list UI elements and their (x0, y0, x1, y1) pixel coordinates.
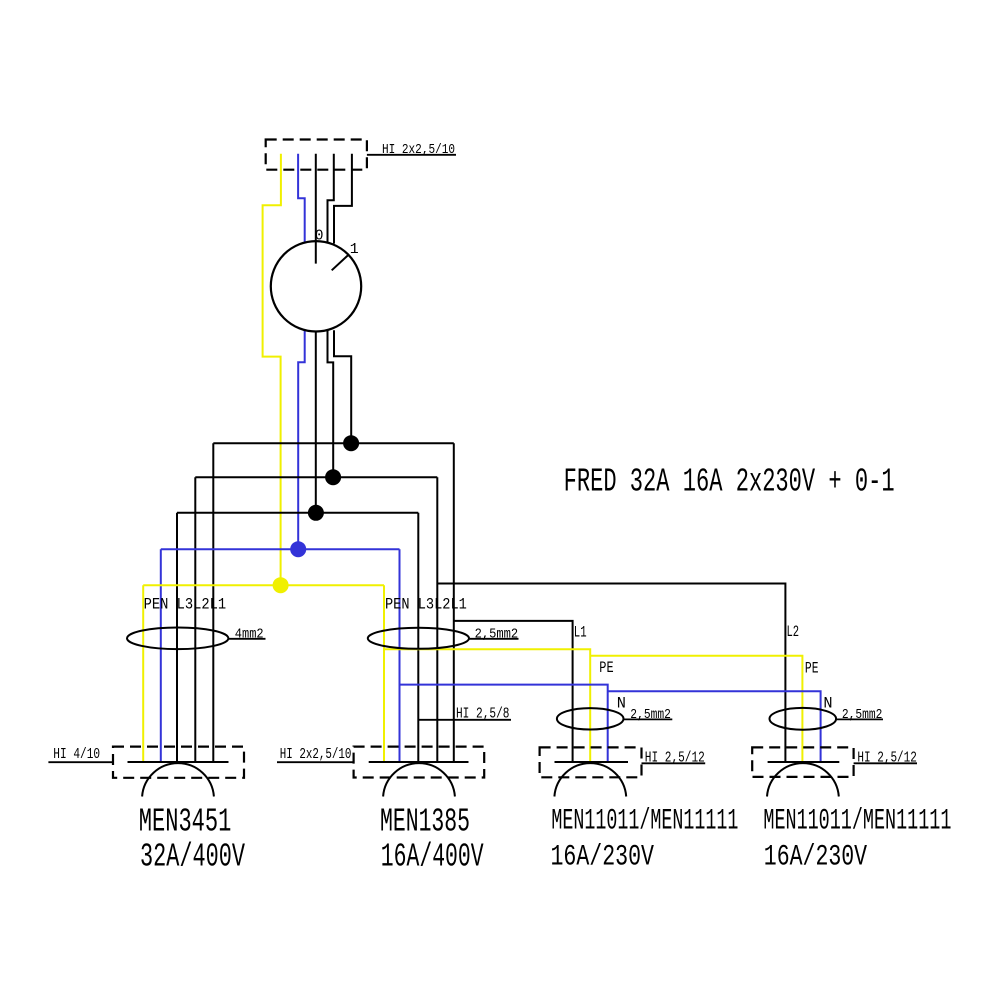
label HI 2x2,5/10 (feed) (367, 143, 456, 158)
outlet 1 box (dashed) (113, 747, 244, 778)
rotary switch 0-1 (271, 241, 361, 331)
svg-text:16A/230V: 16A/230V (551, 841, 655, 875)
svg-text:32A/400V: 32A/400V (140, 838, 245, 875)
wire PE yellow from feed box to PE node (263, 154, 281, 585)
wire N branch to outlet 3 (400, 685, 608, 762)
wire PE down to outlet 1 (142, 585, 144, 762)
label HI 4/10 (48, 746, 113, 763)
outlet 4 socket arc (767, 763, 839, 796)
outlet 2 terminal line (369, 761, 469, 763)
outlet 1 conduit ellipse (127, 628, 228, 650)
svg-text:MEN11011/MEN11111: MEN11011/MEN11111 (763, 805, 951, 839)
svg-text:2,5mm2: 2,5mm2 (842, 707, 883, 723)
outlet 3 box (dashed) (540, 747, 642, 777)
svg-text:PE: PE (599, 659, 613, 677)
outlet 2 conduit ellipse (368, 628, 469, 649)
wire PE branch to outlet 3 (384, 649, 590, 762)
bus N blue (161, 548, 400, 550)
wire L1 down to outlet 2 (453, 443, 455, 762)
svg-text:2,5mm2: 2,5mm2 (630, 707, 671, 723)
svg-text:0: 0 (315, 229, 324, 245)
node L2 (325, 469, 341, 485)
bus L2 (195, 476, 437, 478)
wire PE down to outlet 2 (383, 585, 385, 762)
outlet 4 conduit ellipse (770, 708, 837, 730)
wire L1 down to outlet 1 (212, 443, 214, 762)
outlet 3 conduit ellipse (557, 708, 624, 729)
label HI 2,5/12 (outlet 3) (642, 750, 706, 767)
outlet 4 terminal line (768, 761, 840, 763)
outlet 2 socket arc (383, 763, 455, 796)
wire L3 down to outlet 2 (417, 513, 419, 762)
wire PE branch to outlet 4 (590, 656, 802, 762)
bus PE yellow (143, 584, 384, 586)
bus L3 (177, 512, 418, 514)
outlet 1 terminal line (128, 761, 229, 763)
wire N down to outlet 2 (399, 549, 401, 762)
wire L2 from feed box to switch (328, 154, 334, 243)
label 4mm2 (229, 627, 266, 643)
wire L2 branch to outlet 4 (437, 584, 785, 763)
svg-text:1: 1 (350, 242, 359, 258)
wire N branch to outlet 4 (608, 691, 821, 762)
svg-text:HI 2x2,5/10: HI 2x2,5/10 (280, 746, 352, 763)
wire L3 from feed box through switch pointer 0 (315, 154, 317, 264)
node L1 (343, 435, 359, 451)
svg-text:4mm2: 4mm2 (235, 627, 264, 643)
svg-text:MEN3451: MEN3451 (139, 804, 232, 841)
svg-text:16A/230V: 16A/230V (764, 841, 867, 875)
svg-text:L1: L1 (574, 623, 587, 641)
wire L3 down to outlet 1 (176, 513, 178, 762)
wire L1 from feed box to switch (334, 154, 352, 244)
label HI 2,5/12 (outlet 4) (854, 750, 917, 767)
feed junction box (dashed) (266, 140, 367, 170)
bus L1 (213, 442, 453, 444)
node N (290, 541, 306, 557)
wire L3 from switch to L3 node (315, 331, 317, 512)
svg-text:16A/400V: 16A/400V (381, 838, 484, 875)
label 2,5mm2 (outlet 4) (836, 707, 883, 723)
wire L1 from switch to L1 node (334, 330, 351, 443)
node PE (273, 577, 289, 593)
wire L2 from switch to L2 node (328, 331, 334, 478)
svg-text:MEN11011/MEN11111: MEN11011/MEN11111 (551, 805, 738, 839)
svg-text:N: N (617, 695, 626, 713)
outlet 4 box (dashed) (752, 747, 853, 777)
svg-text:PEN L3L2L1: PEN L3L2L1 (144, 596, 227, 614)
wire N down to outlet 1 (160, 549, 162, 762)
label HI 2,5/8 (418, 705, 511, 722)
outlet 2 box (dashed) (354, 747, 485, 778)
node L3 (308, 505, 324, 521)
svg-text:HI 4/10: HI 4/10 (53, 746, 100, 763)
label 2,5mm2 (outlet 2) (469, 627, 519, 643)
outlet 3 terminal line (555, 761, 629, 763)
wire N blue from switch to N node (298, 331, 305, 550)
wire L2 down to outlet 1 (194, 477, 196, 762)
wire L2 down to outlet 2 (436, 477, 438, 762)
svg-text:PE: PE (805, 660, 819, 678)
svg-text:L2: L2 (787, 623, 800, 641)
outlet 1 socket arc (142, 763, 214, 796)
label 2,5mm2 (outlet 3) (624, 707, 673, 723)
switch pointer 1 (332, 255, 349, 270)
svg-text:FRED 32A 16A 2x230V + 0-1: FRED 32A 16A 2x230V + 0-1 (564, 464, 895, 501)
label HI 2x2,5/10 (outlet 2) (277, 746, 354, 763)
outlet 3 socket arc (554, 763, 626, 796)
svg-text:PEN L3L2L1: PEN L3L2L1 (385, 596, 467, 614)
svg-text:2,5mm2: 2,5mm2 (475, 627, 518, 643)
wire L1 branch to outlet 3 (454, 621, 573, 762)
wire N blue from feed box to switch (298, 154, 305, 243)
svg-text:MEN1385: MEN1385 (380, 804, 470, 841)
